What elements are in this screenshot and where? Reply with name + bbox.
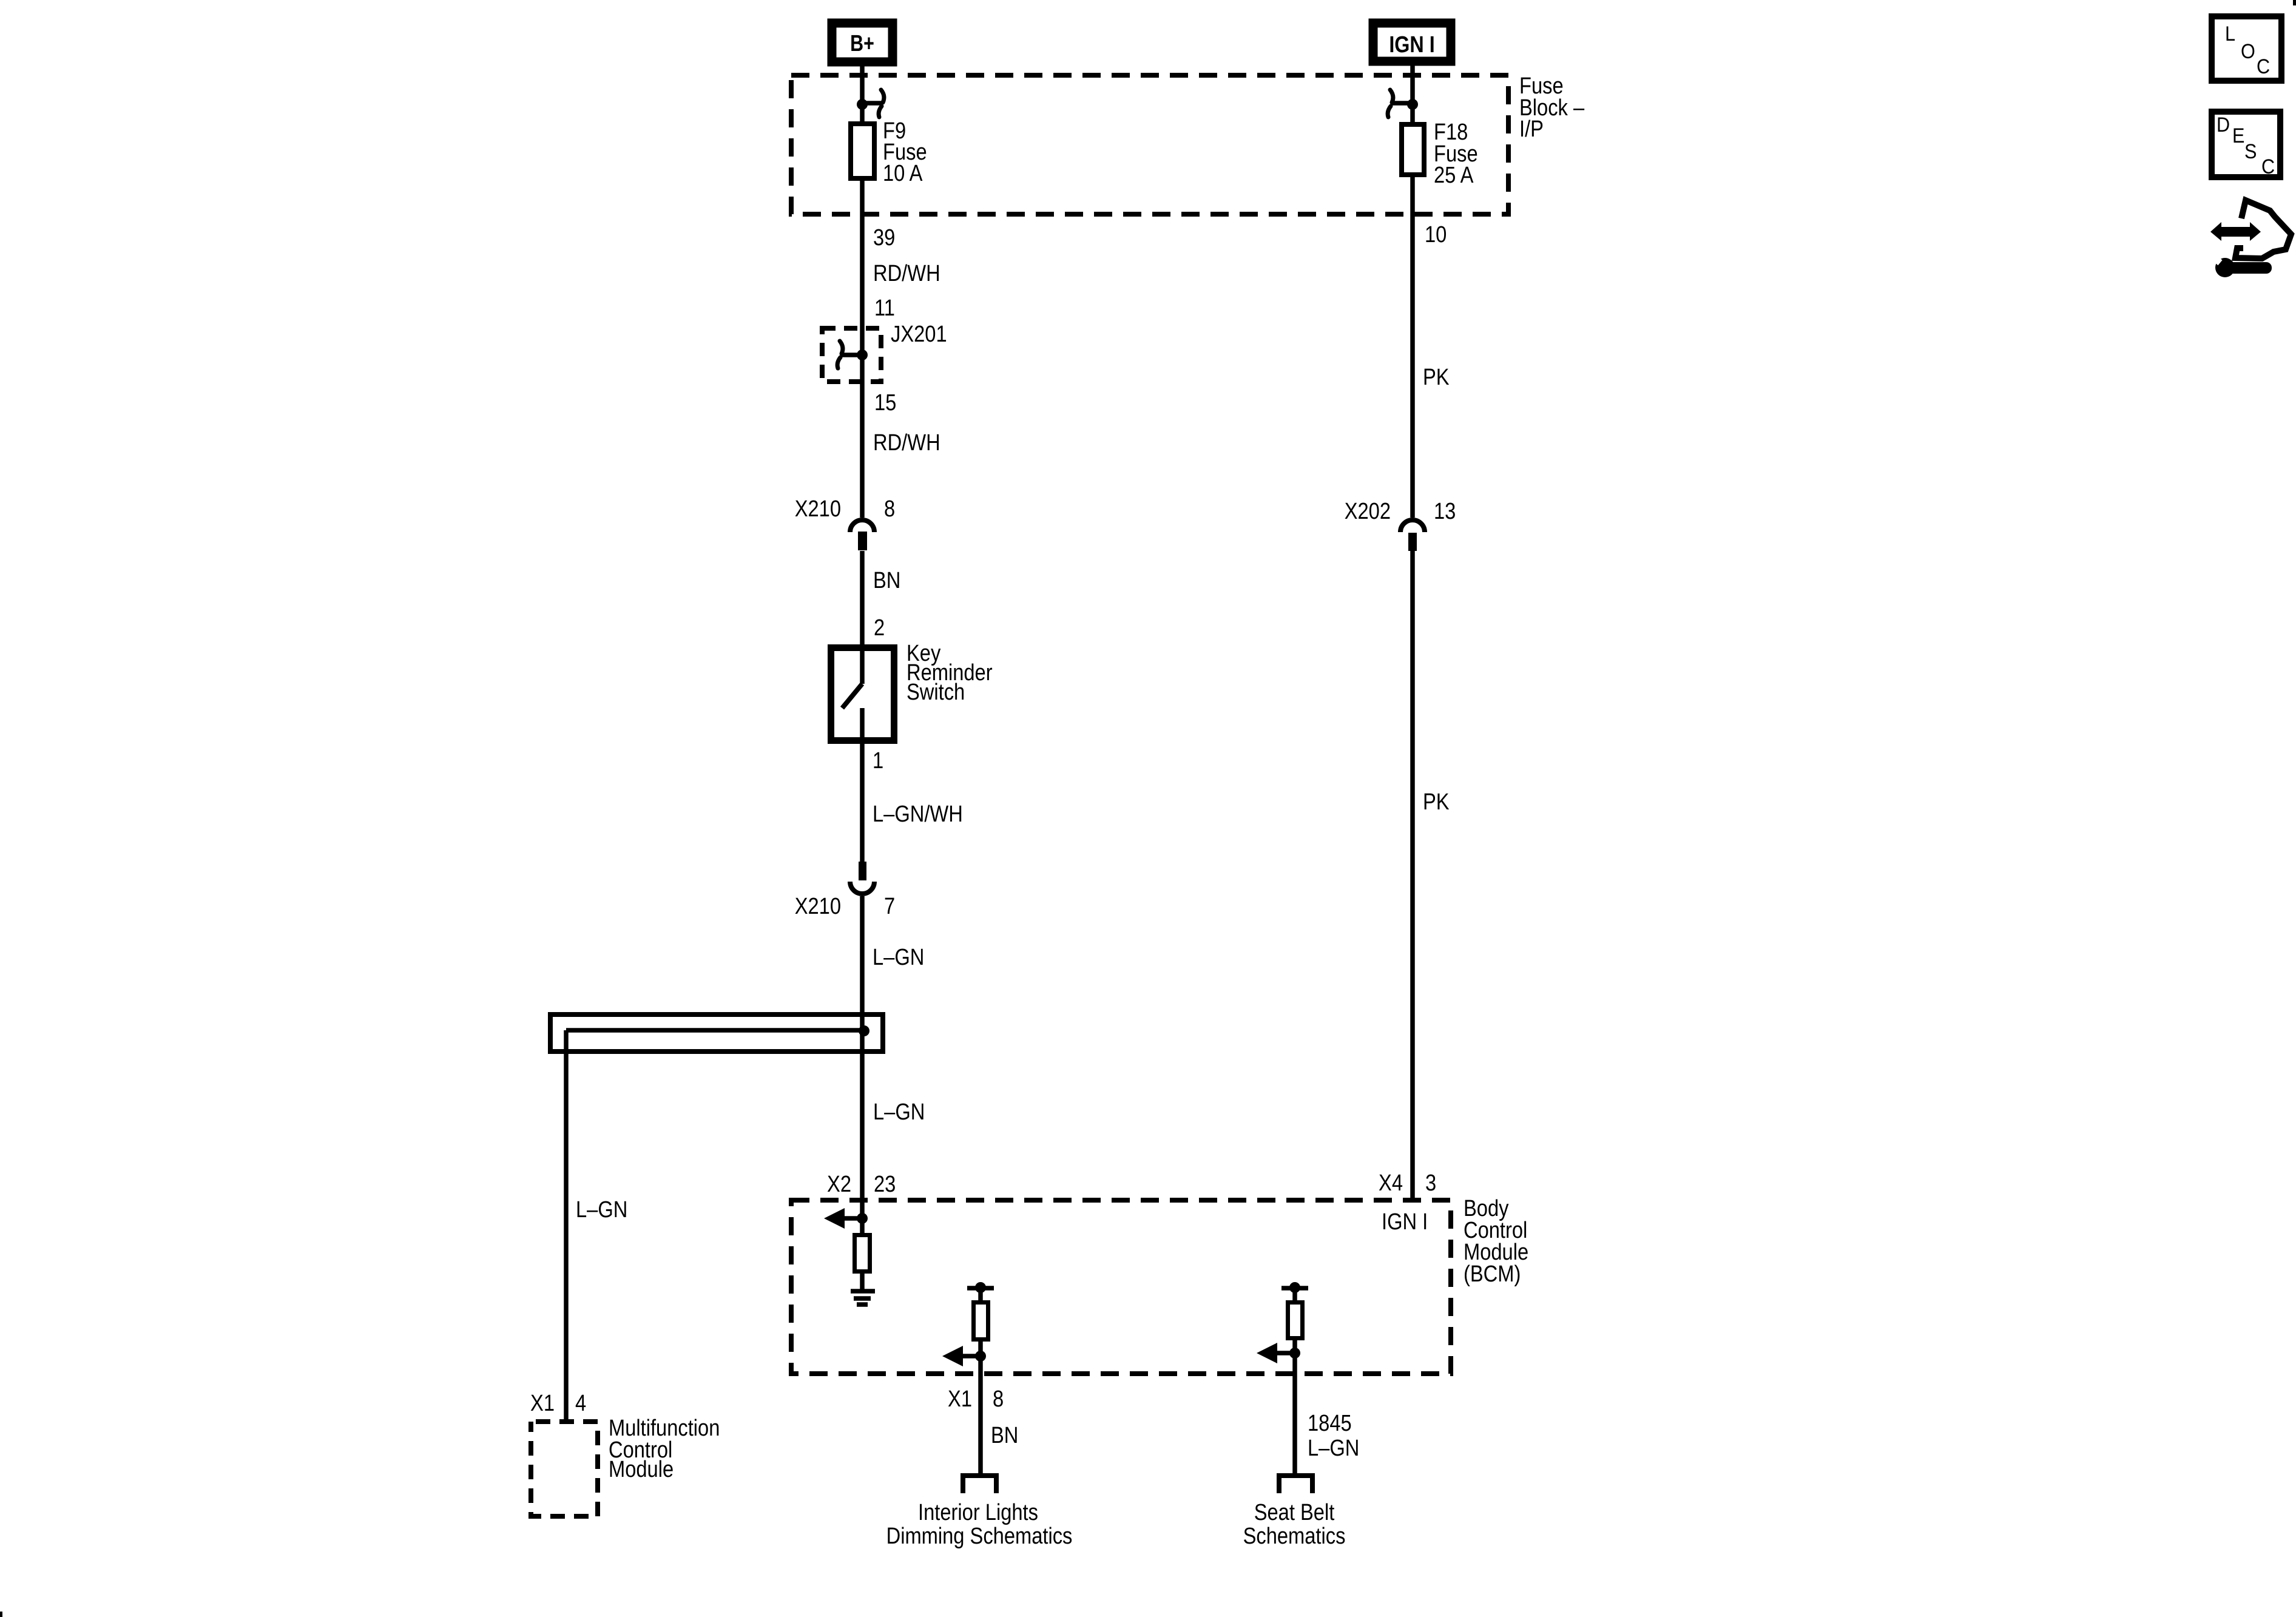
svg-text:E: E xyxy=(2232,124,2244,147)
svg-text:RD/WH: RD/WH xyxy=(873,260,940,286)
svg-text:X2: X2 xyxy=(827,1171,851,1197)
svg-text:L: L xyxy=(2225,22,2235,46)
svg-text:B+: B+ xyxy=(850,31,874,56)
svg-text:1: 1 xyxy=(873,748,883,774)
svg-text:IGN I: IGN I xyxy=(1382,1209,1428,1235)
svg-text:JX201: JX201 xyxy=(891,321,947,347)
svg-text:4: 4 xyxy=(575,1390,586,1416)
svg-text:X210: X210 xyxy=(795,496,841,522)
svg-text:L–GN: L–GN xyxy=(873,1099,925,1125)
svg-text:IGN I: IGN I xyxy=(1389,32,1434,58)
svg-text:X4: X4 xyxy=(1379,1170,1403,1196)
svg-text:L–GN: L–GN xyxy=(576,1197,627,1223)
svg-text:O: O xyxy=(2241,40,2255,63)
svg-text:C: C xyxy=(2261,155,2275,178)
svg-text:X210: X210 xyxy=(795,893,841,919)
svg-text:Schematics: Schematics xyxy=(1243,1523,1346,1549)
svg-text:39: 39 xyxy=(873,224,895,251)
svg-text:11: 11 xyxy=(874,295,895,321)
svg-text:8: 8 xyxy=(884,496,895,522)
svg-text:BN: BN xyxy=(991,1422,1018,1448)
svg-text:C: C xyxy=(2257,55,2270,78)
svg-text:D: D xyxy=(2217,113,2230,137)
svg-text:3: 3 xyxy=(1425,1170,1436,1196)
svg-text:1845: 1845 xyxy=(1308,1410,1352,1436)
svg-text:Switch: Switch xyxy=(907,679,965,705)
svg-text:Seat Belt: Seat Belt xyxy=(1254,1499,1335,1525)
svg-text:2: 2 xyxy=(874,615,885,641)
svg-text:PK: PK xyxy=(1423,364,1450,390)
svg-text:S: S xyxy=(2244,140,2257,163)
svg-text:X202: X202 xyxy=(1345,498,1391,524)
svg-text:7: 7 xyxy=(884,893,895,919)
svg-text:13: 13 xyxy=(1434,498,1456,524)
svg-text:L–GN: L–GN xyxy=(1308,1435,1359,1461)
svg-text:Interior Lights: Interior Lights xyxy=(918,1499,1038,1525)
svg-text:15: 15 xyxy=(874,390,896,416)
svg-text:8: 8 xyxy=(993,1386,1004,1412)
svg-text:X1: X1 xyxy=(948,1386,972,1412)
svg-text:10 A: 10 A xyxy=(883,160,923,186)
svg-text:X1: X1 xyxy=(530,1390,555,1416)
svg-text:25 A: 25 A xyxy=(1434,162,1474,188)
svg-text:Module: Module xyxy=(609,1456,674,1482)
svg-text:(BCM): (BCM) xyxy=(1464,1261,1521,1287)
svg-text:L–GN: L–GN xyxy=(873,944,924,970)
svg-text:RD/WH: RD/WH xyxy=(873,430,940,456)
svg-text:BN: BN xyxy=(873,567,900,593)
svg-text:I/P: I/P xyxy=(1519,116,1544,142)
svg-text:L–GN/WH: L–GN/WH xyxy=(873,801,963,827)
svg-text:23: 23 xyxy=(874,1171,896,1197)
svg-text:10: 10 xyxy=(1425,221,1447,248)
svg-text:PK: PK xyxy=(1423,789,1450,815)
svg-text:Dimming Schematics: Dimming Schematics xyxy=(886,1523,1073,1549)
